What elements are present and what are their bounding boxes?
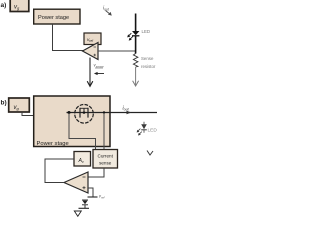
svg-text:Power stage: Power stage [37, 141, 69, 147]
svg-text:Current: Current [98, 153, 114, 158]
svg-text:LED: LED [148, 128, 158, 134]
svg-text:resistor: resistor [141, 64, 156, 69]
svg-text:vsense: vsense [94, 63, 105, 69]
svg-text:LED: LED [142, 29, 151, 34]
svg-text:Power stage: Power stage [38, 15, 69, 21]
svg-text:vg: vg [14, 4, 20, 10]
svg-text:b): b) [1, 100, 7, 107]
svg-text:vg: vg [14, 105, 20, 111]
svg-text:a): a) [1, 2, 7, 9]
svg-text:Sense: Sense [141, 56, 154, 61]
svg-text:sense: sense [99, 160, 112, 165]
